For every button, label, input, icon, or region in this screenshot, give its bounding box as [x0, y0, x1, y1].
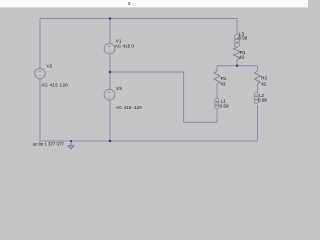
svg-text:0.58: 0.58 — [220, 104, 229, 109]
svg-text:AC 415 0: AC 415 0 — [115, 44, 135, 49]
svg-text:0.98: 0.98 — [258, 98, 267, 103]
svg-text:0.58: 0.58 — [238, 36, 247, 41]
svg-text:AC 415 -120: AC 415 -120 — [116, 105, 142, 110]
svg-text:V2: V2 — [47, 64, 53, 69]
svg-text:43: 43 — [220, 82, 226, 87]
svg-text:V3: V3 — [116, 86, 122, 91]
svg-text:42: 42 — [239, 55, 245, 60]
svg-text:42: 42 — [261, 82, 267, 87]
svg-text:R2: R2 — [221, 76, 227, 81]
svg-text:.ac lin 1 377 377: .ac lin 1 377 377 — [32, 141, 64, 146]
svg-text:R3: R3 — [261, 76, 267, 81]
svg-text:AC 415 120: AC 415 120 — [41, 83, 68, 88]
